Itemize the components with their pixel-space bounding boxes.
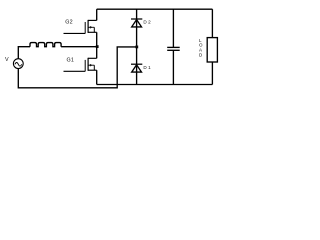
wire bottom rail [97, 84, 213, 86]
diode D2 [131, 19, 142, 47]
capacitor C [167, 47, 180, 50]
wire phase node to Q1 drain [96, 47, 98, 59]
node diode midpoint junction [135, 46, 138, 49]
svg-text:D: D [199, 53, 203, 58]
svg-text:G1: G1 [67, 58, 75, 64]
svg-text:D2: D2 [143, 20, 152, 25]
diode D1 [131, 47, 142, 85]
svg-text:D1: D1 [143, 65, 152, 70]
transistor Q2 [85, 20, 97, 34]
wire D2 cathode to top rail [136, 9, 138, 19]
wire gate lead G1 [64, 70, 86, 72]
load resistor box [207, 38, 217, 62]
transistor Q1 [85, 58, 97, 72]
voltage source V [13, 59, 23, 69]
wire top rail [97, 8, 213, 10]
capacitor C top lead [172, 9, 174, 47]
wire source top to inductor [18, 47, 30, 59]
load bottom lead [211, 62, 213, 85]
node phase junction [96, 45, 99, 48]
label LOAD [199, 38, 203, 58]
wire Q2 drain to top rail [96, 9, 98, 20]
load top lead [211, 9, 213, 37]
wire Q1 source to bottom rail [96, 70, 98, 84]
wire Q2 source to phase node [96, 32, 98, 46]
svg-text:V: V [5, 57, 9, 63]
inductor L [30, 43, 61, 47]
svg-text:G2: G2 [65, 19, 73, 25]
capacitor C bottom lead [172, 50, 174, 84]
wire gate lead G2 [64, 32, 86, 34]
wire AC return: source bottom to diode midpoint [18, 47, 136, 88]
wire inductor to phase node [61, 46, 97, 48]
